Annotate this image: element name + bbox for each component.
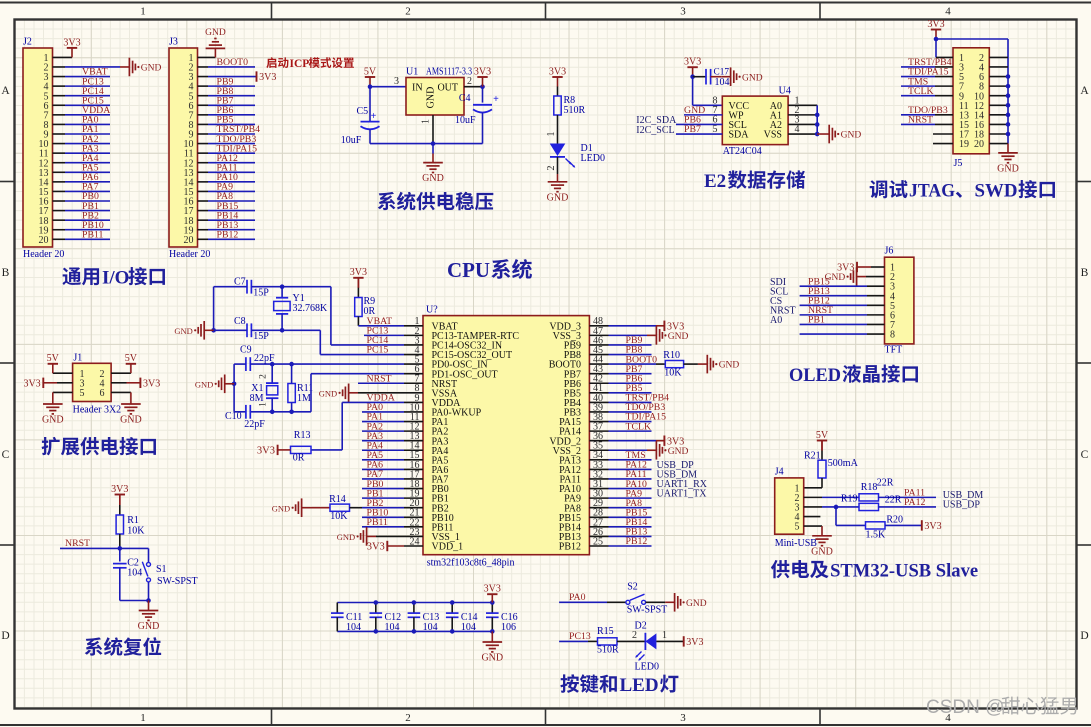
svg-text:5V: 5V bbox=[125, 353, 138, 364]
svg-text:CPU: CPU bbox=[447, 258, 490, 282]
svg-text:2: 2 bbox=[546, 166, 557, 171]
section title 通用I/O接口 bbox=[62, 267, 81, 285]
power port 3V3 (J5) bbox=[931, 29, 941, 31]
wire net PA10 (U7 pin31) bbox=[609, 488, 652, 490]
wire C9-C10 left link bbox=[233, 364, 235, 412]
power port GND (J1 pin5) bbox=[43, 403, 63, 405]
svg-text:GND: GND bbox=[481, 653, 503, 664]
svg-text:104: 104 bbox=[715, 77, 730, 88]
wire net PA2 (U7) bbox=[362, 430, 404, 432]
svg-text:3: 3 bbox=[680, 6, 686, 18]
wire J3 pin3 to 3V3 bbox=[198, 76, 209, 78]
wire J1 pin5 to GND bbox=[53, 391, 73, 393]
wire R18 net PA11 bbox=[879, 496, 937, 498]
svg-text:SDA: SDA bbox=[729, 130, 750, 141]
wire J5 net NRST bbox=[901, 123, 935, 125]
capacitor C12 104 bbox=[375, 603, 377, 614]
section title 系统复位 bbox=[85, 637, 103, 655]
wire J1 pin6 to GND bbox=[111, 391, 131, 393]
svg-text:20: 20 bbox=[184, 235, 194, 246]
regulator U1 AMS1117-3.3 bbox=[406, 78, 464, 116]
svg-text:Header 20: Header 20 bbox=[169, 249, 210, 260]
junction node J5 3V3 bbox=[934, 37, 939, 42]
wire net TCLK (U7 pin37) bbox=[609, 430, 652, 432]
wire J1 pin1 to 5V bbox=[53, 372, 73, 374]
svg-text:22R: 22R bbox=[885, 495, 902, 506]
svg-text:GND: GND bbox=[174, 326, 192, 336]
svg-text:R1: R1 bbox=[127, 515, 139, 526]
svg-text:3V3: 3V3 bbox=[837, 263, 854, 274]
wire J6 pin5 net PB12 bbox=[800, 304, 867, 306]
power port GND (J3 pin1) bbox=[206, 47, 226, 49]
wire net PA11 (U7 pin32) bbox=[609, 478, 652, 480]
wire C7 row bbox=[214, 286, 247, 288]
svg-text:5: 5 bbox=[795, 522, 800, 533]
wire R1 to NRST node bbox=[119, 534, 121, 548]
crystal Y1 32.768K bbox=[281, 287, 283, 298]
wire net PA7 (U7) bbox=[362, 478, 404, 480]
svg-text:C9: C9 bbox=[240, 345, 252, 356]
capacitor C16 106 bbox=[491, 603, 493, 614]
wire decoupling top rail bbox=[337, 602, 492, 604]
resistor R10 10K bbox=[665, 360, 683, 367]
svg-text:J2: J2 bbox=[23, 37, 32, 48]
wire net PB6 (U7 pin42) bbox=[609, 382, 652, 384]
wire net PA8 (U7 pin29) bbox=[609, 507, 652, 509]
svg-text:PA12: PA12 bbox=[904, 497, 926, 508]
svg-text:TFT: TFT bbox=[885, 345, 903, 356]
svg-text:D2: D2 bbox=[635, 621, 647, 632]
wire J3 pin10 net TDO/PB3 bbox=[198, 143, 209, 145]
wire R8 to D1 bbox=[557, 115, 559, 144]
led D1 LED0 bbox=[550, 144, 566, 157]
power port GND (VSSA) bbox=[349, 392, 358, 394]
svg-text:PB12: PB12 bbox=[626, 536, 648, 547]
svg-text:22R: 22R bbox=[877, 478, 894, 489]
wire J5 net TCLK bbox=[901, 95, 935, 97]
wire J3 pin1 to GND bbox=[198, 56, 216, 58]
resistor R8 510R bbox=[554, 96, 561, 115]
svg-text:GND: GND bbox=[668, 447, 689, 457]
wire J4 pin5 to GND bbox=[804, 525, 822, 527]
wire C4 to bottom rail bbox=[482, 113, 484, 144]
wire J5 net TDO/PB3 bbox=[901, 114, 935, 116]
svg-text:C10: C10 bbox=[225, 411, 242, 422]
junction nodes X1/R11 top bbox=[270, 362, 275, 367]
svg-text:2: 2 bbox=[405, 712, 411, 724]
wire 3V3 to C17 bbox=[693, 76, 706, 78]
svg-text:A: A bbox=[1, 85, 10, 97]
svg-text:SW-SPST: SW-SPST bbox=[157, 576, 198, 587]
wire 3V3 to R8 bbox=[557, 87, 559, 97]
capacitor C10 22pF bbox=[245, 405, 247, 419]
wire net PB8 (U7 pin45) bbox=[609, 354, 652, 356]
svg-text:6: 6 bbox=[100, 388, 105, 399]
led D2 LED0 bbox=[644, 633, 646, 650]
svg-text:5V: 5V bbox=[816, 430, 829, 441]
wire R20 to 3V3 bbox=[885, 524, 922, 526]
power port 3V3 (J1 pin4) bbox=[139, 378, 141, 388]
wire 3V3 to R13 bbox=[278, 449, 291, 451]
svg-text:GND: GND bbox=[337, 532, 355, 542]
svg-text:104: 104 bbox=[127, 568, 142, 579]
power port GND (D1) bbox=[548, 181, 568, 183]
svg-text:NRST: NRST bbox=[908, 115, 933, 126]
svg-text:3V3: 3V3 bbox=[143, 378, 160, 389]
power port GND (C17) bbox=[711, 76, 722, 78]
power port GND (J2 pin2) bbox=[120, 66, 129, 68]
svg-text:J1: J1 bbox=[73, 353, 82, 364]
wire J2 pin15 net PA7 bbox=[53, 190, 66, 192]
power port 3V3 (J2 pin1) bbox=[67, 47, 77, 49]
junction node USB DP bbox=[834, 505, 839, 510]
power port 5V (USB) bbox=[817, 440, 827, 442]
svg-text:104: 104 bbox=[346, 622, 361, 633]
wire net TRST/PB4 (U7 pin40) bbox=[609, 401, 652, 403]
svg-text:R21: R21 bbox=[804, 451, 821, 462]
svg-text:3V3: 3V3 bbox=[257, 446, 275, 457]
svg-text:I/O: I/O bbox=[102, 268, 129, 289]
wire J2 pin12 net PA4 bbox=[53, 162, 66, 164]
junction node reset bbox=[118, 546, 123, 551]
svg-text:LED: LED bbox=[620, 675, 659, 696]
svg-text:1: 1 bbox=[259, 402, 269, 407]
svg-text:1: 1 bbox=[140, 712, 146, 724]
connector J4 Mini-USB bbox=[775, 478, 804, 534]
power port 5V (J1 pin1) bbox=[48, 363, 58, 365]
svg-text:10K: 10K bbox=[127, 526, 145, 537]
wire net PC13 (led) bbox=[559, 640, 588, 642]
svg-text:20: 20 bbox=[974, 139, 984, 150]
wire net PA5 (U7) bbox=[362, 459, 404, 461]
svg-text:1: 1 bbox=[662, 630, 667, 641]
svg-text:B: B bbox=[1081, 267, 1089, 279]
svg-text:U4: U4 bbox=[779, 86, 791, 97]
resistor R11 1M bbox=[288, 384, 295, 403]
section title 系统供电稳压 bbox=[378, 192, 396, 210]
power port GND (R10) bbox=[698, 363, 707, 365]
svg-text:R15: R15 bbox=[597, 626, 614, 637]
svg-text:U1: U1 bbox=[406, 67, 418, 78]
svg-text:GND: GND bbox=[686, 599, 707, 609]
svg-text:GND: GND bbox=[426, 87, 437, 109]
svg-text:106: 106 bbox=[501, 622, 516, 633]
wire J2 pin4 net PC13 bbox=[53, 85, 66, 87]
svg-text:ICP: ICP bbox=[290, 58, 310, 70]
svg-text:J4: J4 bbox=[775, 467, 784, 478]
wire J2 pin8 net PA0 bbox=[53, 123, 66, 125]
power port 3V3 (decoupling) bbox=[487, 593, 497, 595]
power port 3V3 (J1 pin3) bbox=[42, 378, 44, 388]
connector J2 Header 20 bbox=[23, 48, 53, 247]
wire U7 pin48 to 3V3 bbox=[609, 325, 657, 327]
svg-text:PC13: PC13 bbox=[569, 631, 591, 642]
svg-text:GND: GND bbox=[272, 503, 290, 513]
svg-text:GND: GND bbox=[138, 621, 160, 632]
wire net PB0 (U7) bbox=[362, 488, 404, 490]
svg-text:3V3: 3V3 bbox=[549, 66, 566, 77]
wire J2 pin19 net PB10 bbox=[53, 229, 66, 231]
wire J2 pin10 net PA2 bbox=[53, 143, 66, 145]
capacitor C5 10uF polarized bbox=[361, 121, 380, 123]
wire J5 pin2 bus to 3V3 bbox=[936, 38, 1008, 40]
wire net PB7 (U7 pin43) bbox=[609, 373, 652, 375]
junction node 32k gnd bbox=[211, 328, 216, 333]
svg-text:PB7: PB7 bbox=[684, 124, 701, 135]
power port 5V (U1 input) bbox=[365, 76, 375, 78]
svg-text:GND: GND bbox=[205, 28, 226, 38]
svg-text:32.768K: 32.768K bbox=[293, 303, 329, 314]
wire VSSA bbox=[358, 392, 404, 394]
svg-text:10uF: 10uF bbox=[455, 115, 476, 126]
junction node 3V3/C17 bbox=[690, 74, 695, 79]
wire decoupling bottom rail bbox=[337, 630, 492, 632]
svg-text:22pF: 22pF bbox=[244, 419, 265, 430]
power port 5V (J1 pin2) bbox=[126, 363, 136, 365]
eeprom U4 AT24C04 bbox=[722, 96, 788, 145]
power port GND (J4) bbox=[812, 535, 832, 537]
svg-text:+: + bbox=[371, 111, 377, 122]
svg-text:5: 5 bbox=[80, 388, 85, 399]
wire C2 to bottom bbox=[119, 568, 121, 601]
wire J2 pin5 net PC14 bbox=[53, 95, 66, 97]
svg-text:3V3: 3V3 bbox=[686, 637, 703, 648]
wire J4 pin4 stub bbox=[804, 516, 821, 518]
svg-text:IN: IN bbox=[412, 82, 423, 93]
svg-text:PB11: PB11 bbox=[367, 517, 389, 528]
wire J1 pin4 to 3V3 bbox=[111, 382, 126, 384]
power port GND (32k crystal) bbox=[204, 329, 213, 331]
connector J1 Header 3X2 bbox=[73, 363, 112, 401]
wire D2 to 3V3 bbox=[656, 640, 683, 642]
svg-text:GND: GND bbox=[120, 415, 142, 426]
power port GND (8M crystal) bbox=[225, 383, 234, 385]
wire U4 SDA net PB7 bbox=[676, 133, 722, 135]
svg-text:D: D bbox=[1, 630, 9, 642]
svg-text:TCLK: TCLK bbox=[626, 421, 652, 432]
svg-text:J5: J5 bbox=[954, 158, 963, 169]
wire net PA6 (U7) bbox=[362, 468, 404, 470]
wire J2 pin3 net VBAT bbox=[53, 76, 66, 78]
svg-text:LED0: LED0 bbox=[581, 153, 605, 164]
connector J3 Header 20 bbox=[169, 48, 198, 247]
note text 启动ICP模式设置 bbox=[266, 57, 276, 68]
power port GND (VSS_1) bbox=[367, 535, 376, 537]
capacitor C17 104 bbox=[705, 69, 707, 85]
wire net PA0 (key) bbox=[559, 601, 607, 603]
wire J3 pin13 net PA11 bbox=[198, 171, 209, 173]
svg-text:GND: GND bbox=[141, 64, 162, 74]
svg-text:500mA: 500mA bbox=[828, 458, 859, 469]
junction nodes C14 bbox=[450, 600, 455, 605]
svg-text:AMS1117-3.3: AMS1117-3.3 bbox=[426, 67, 472, 78]
wire net PB12 (U7 pin25) bbox=[609, 545, 652, 547]
svg-text:20: 20 bbox=[39, 235, 49, 246]
wire J2 pin20 net PB11 bbox=[53, 238, 66, 240]
svg-text:2: 2 bbox=[259, 374, 269, 379]
svg-text:3: 3 bbox=[680, 712, 686, 724]
power port GND (J6 pin2) bbox=[857, 276, 866, 278]
capacitor C8 15P bbox=[246, 323, 248, 337]
junction node at C4 bbox=[480, 84, 485, 89]
svg-text:BOOT0: BOOT0 bbox=[217, 57, 249, 68]
power port 3V3 (U7 pin48) bbox=[663, 321, 665, 331]
svg-text:3V3: 3V3 bbox=[667, 321, 684, 332]
wire DP pullup branch bbox=[835, 507, 837, 525]
svg-text:B: B bbox=[2, 267, 10, 279]
wire net PB13 (U7 pin26) bbox=[609, 535, 652, 537]
wire U1 OUT bbox=[464, 86, 483, 88]
svg-text:GND: GND bbox=[42, 415, 64, 426]
wire J2 pin6 net PC15 bbox=[53, 104, 66, 106]
resistor R19 22R bbox=[859, 503, 879, 510]
junction node 8M gnd bbox=[232, 382, 237, 387]
pin U1.1 GND stub bbox=[432, 115, 434, 144]
svg-text:PB2: PB2 bbox=[367, 498, 384, 509]
wire J3 pin16 net PA8 bbox=[198, 200, 209, 202]
power port GND (R14) bbox=[302, 507, 311, 509]
junction nodes C16 bbox=[490, 600, 495, 605]
svg-text:stm32f103c8t6_48pin: stm32f103c8t6_48pin bbox=[427, 558, 515, 569]
power port 3V3 (J6 pin1) bbox=[856, 262, 858, 272]
connector J6 TFT bbox=[885, 257, 914, 344]
wire C9 row bbox=[234, 363, 246, 365]
wire J2 pin16 net PB0 bbox=[53, 200, 66, 202]
connector J5 JTAG bbox=[953, 48, 989, 154]
svg-text:PB1: PB1 bbox=[808, 315, 825, 326]
wire net PA3 (U7) bbox=[362, 440, 404, 442]
junction node Y1 top bbox=[280, 284, 285, 289]
junction node Y1 bottom bbox=[280, 328, 285, 333]
wire C4 branch bbox=[482, 87, 484, 103]
wire net PB14 (U7 pin27) bbox=[609, 526, 652, 528]
wire J3 pin15 net PA9 bbox=[198, 190, 209, 192]
wire U4 A0-A2,VSS bus bbox=[788, 104, 817, 106]
wire R9 to VBAT pin1 bbox=[357, 317, 359, 326]
wire VSS_1 bbox=[376, 535, 404, 537]
wire R10 to GND bbox=[684, 363, 698, 365]
wire R21 to J4 pin1 bbox=[821, 478, 823, 488]
wire net PA9 (U7 pin30) bbox=[609, 497, 652, 499]
wire net PB1 (U7) bbox=[362, 497, 404, 499]
wire J2 pin2 to GND bbox=[53, 66, 66, 68]
svg-text:S2: S2 bbox=[627, 582, 638, 593]
svg-text:AT24C04: AT24C04 bbox=[723, 146, 762, 157]
svg-text:PA0: PA0 bbox=[569, 592, 586, 603]
svg-text:3V3: 3V3 bbox=[667, 436, 684, 447]
power port 3V3 (U1 out) bbox=[477, 76, 487, 78]
wire U7 pin35 to GND bbox=[609, 449, 648, 451]
svg-text:2: 2 bbox=[405, 6, 411, 18]
section title 扩展供电接口 bbox=[42, 437, 60, 455]
wire J2 pin7 net VDDA bbox=[53, 114, 66, 116]
wire net TDO/PB3 (U7 pin39) bbox=[609, 411, 652, 413]
svg-text:A: A bbox=[1080, 85, 1089, 97]
svg-text:3V3: 3V3 bbox=[63, 37, 80, 48]
svg-text:3V3: 3V3 bbox=[484, 584, 501, 595]
svg-text:5V: 5V bbox=[364, 66, 377, 77]
svg-text:CSDN @: CSDN @ bbox=[926, 697, 1004, 718]
junction node at C5 bbox=[368, 84, 373, 89]
wire J3 pin17 net PB15 bbox=[198, 210, 209, 212]
wire J6 pin2 to GND bbox=[866, 276, 885, 278]
fuse R21 500mA bbox=[821, 441, 823, 451]
resistor R18 22R bbox=[859, 494, 879, 501]
svg-text:J3: J3 bbox=[169, 37, 178, 48]
svg-text:3V3: 3V3 bbox=[111, 484, 128, 495]
svg-text:GND: GND bbox=[547, 192, 569, 203]
wire net TMS (U7 pin34) bbox=[609, 459, 652, 461]
svg-text:C8: C8 bbox=[234, 316, 246, 327]
svg-text:104: 104 bbox=[385, 622, 400, 633]
svg-text:10K: 10K bbox=[330, 511, 348, 522]
svg-text:JTAG: JTAG bbox=[909, 181, 955, 202]
svg-text:VDD_1: VDD_1 bbox=[432, 542, 464, 553]
wire J3 pin18 net PB14 bbox=[198, 219, 209, 221]
power port 3V3 (VDD_1) bbox=[386, 541, 388, 551]
wire J5 pin17 stub bbox=[933, 133, 953, 135]
wire J2 pin17 net PB1 bbox=[53, 210, 66, 212]
power port 3V3 (R1) bbox=[115, 494, 125, 496]
svg-text:3V3: 3V3 bbox=[259, 72, 276, 83]
svg-text:PB11: PB11 bbox=[82, 230, 104, 241]
svg-text:1M: 1M bbox=[297, 393, 311, 404]
capacitor C9 22pF bbox=[245, 357, 247, 371]
svg-text:OLED: OLED bbox=[789, 365, 841, 386]
wire net PB15 (U7 pin28) bbox=[609, 516, 652, 518]
svg-text:NRST: NRST bbox=[65, 538, 90, 549]
svg-text:GND: GND bbox=[811, 546, 833, 557]
resistor R13 0R bbox=[291, 446, 312, 453]
svg-text:0R: 0R bbox=[293, 453, 305, 464]
wire S2 to GND bbox=[646, 601, 666, 603]
wire J5 net TDI/PA15 bbox=[901, 76, 935, 78]
mcu U7 stm32f103c8t6_48pin bbox=[423, 316, 589, 555]
svg-text:10K: 10K bbox=[664, 368, 682, 379]
svg-text:+: + bbox=[493, 94, 499, 105]
svg-text:I2C_SCL: I2C_SCL bbox=[636, 125, 674, 136]
wire J6 pin7 net PB1 bbox=[800, 323, 867, 325]
wire J3 pin9 net TRST/PB4 bbox=[198, 133, 209, 135]
wire U4 WP net GND bbox=[684, 114, 722, 116]
wire J5 pin1 to 3V3 bbox=[935, 39, 937, 57]
wire J5 net TMS bbox=[901, 85, 935, 87]
svg-text:1: 1 bbox=[546, 132, 557, 137]
power port GND (reset) bbox=[148, 601, 150, 611]
resistor R14 10K bbox=[311, 507, 330, 509]
wire J2 pin18 net PB2 bbox=[53, 219, 66, 221]
junction on bottom rail bbox=[431, 141, 436, 146]
svg-text:GND: GND bbox=[195, 379, 213, 389]
svg-text:VSS: VSS bbox=[764, 130, 782, 141]
svg-text:A0: A0 bbox=[770, 315, 782, 326]
svg-text:R19: R19 bbox=[841, 494, 858, 505]
wire J3 pin8 net PB5 bbox=[198, 123, 209, 125]
wire R15 to D2 bbox=[617, 640, 645, 642]
svg-text:USB_DP: USB_DP bbox=[943, 499, 981, 510]
wire net PB5 (U7 pin41) bbox=[609, 392, 652, 394]
svg-text:STM32-USB Slave: STM32-USB Slave bbox=[830, 561, 978, 582]
wire J6 pin8 bbox=[800, 333, 867, 335]
svg-text:Header 3X2: Header 3X2 bbox=[73, 405, 122, 416]
wire J2 pin11 net PA3 bbox=[53, 152, 66, 154]
wire S1 to bottom bbox=[148, 582, 150, 601]
wire C7-C8 left link bbox=[213, 287, 215, 331]
section title 调试JTAG、SWD接口 bbox=[870, 180, 888, 198]
wire net NRST (reset) bbox=[60, 547, 149, 549]
svg-text:GND: GND bbox=[997, 163, 1019, 174]
power port GND (U7 pin35) bbox=[647, 449, 656, 451]
